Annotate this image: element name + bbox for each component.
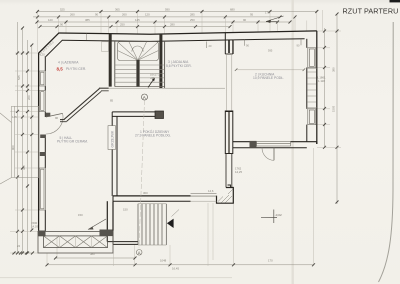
stair winder platform box xyxy=(118,42,159,61)
kitchen inner face lines xyxy=(233,40,235,54)
stair treads straight xyxy=(115,65,165,82)
leader arrow terrace xyxy=(88,219,106,230)
window right W2 xyxy=(308,109,316,125)
bathroom diagonal wall xyxy=(60,88,101,122)
kitchen bottom window band xyxy=(257,141,291,146)
leader arrow kitchen top xyxy=(266,16,284,22)
terrace bottom-left xyxy=(38,231,113,253)
kitchen label xyxy=(253,72,284,80)
step corner hatch xyxy=(218,190,233,203)
stair up arrow xyxy=(148,80,154,88)
svg-text:250: 250 xyxy=(120,23,125,27)
bottom dim long row xyxy=(47,264,314,266)
window left W3 xyxy=(39,168,45,210)
svg-text:385: 385 xyxy=(85,18,90,22)
front door arc xyxy=(46,113,63,134)
wide opening dining-kitchen xyxy=(226,54,232,111)
svg-text:3 | JADALNIA: 3 | JADALNIA xyxy=(168,60,189,64)
terrace corner blob left xyxy=(38,231,46,237)
section circle A top xyxy=(142,94,148,100)
tick marks on dimension chains xyxy=(13,10,339,266)
svg-text:16,45: 16,45 xyxy=(172,266,179,270)
svg-text:590: 590 xyxy=(165,7,170,11)
right dim col far xyxy=(336,14,338,204)
right paper edge curve xyxy=(379,22,394,282)
svg-text:525: 525 xyxy=(17,75,21,80)
svg-text:2 | KUCHNIA: 2 | KUCHNIA xyxy=(255,72,275,76)
stair handrail arc xyxy=(132,46,143,52)
svg-text:RZUT PARTERU: RZUT PARTERU xyxy=(343,7,399,16)
kitchen bottom wall xyxy=(233,142,317,148)
svg-text:14,6: 14,6 xyxy=(208,189,214,193)
door lower jamb xyxy=(40,135,45,139)
svg-text:90: 90 xyxy=(297,44,300,48)
svg-text:GRZEJNIK: GRZEJNIK xyxy=(111,130,115,148)
dining window mullion tick xyxy=(206,42,208,49)
svg-text:170: 170 xyxy=(268,259,273,263)
terrace X lattice xyxy=(44,236,108,248)
top dim row 3 xyxy=(37,21,290,23)
kitchen terrace door arc xyxy=(262,148,274,161)
svg-text:24: 24 xyxy=(17,244,21,248)
stairwell right wall xyxy=(159,34,164,88)
svg-text:20: 20 xyxy=(209,44,212,48)
pillar xyxy=(155,111,164,119)
svg-text:380: 380 xyxy=(332,67,336,72)
svg-text:95: 95 xyxy=(250,13,254,17)
svg-text:900: 900 xyxy=(11,145,15,150)
svg-text:90: 90 xyxy=(243,18,247,22)
bottom extensions xyxy=(46,253,48,266)
svg-text:1505: 1505 xyxy=(332,105,336,112)
terrace corner blob right xyxy=(100,230,113,237)
wall mark block xyxy=(40,152,46,156)
bottom faint paper line xyxy=(0,277,232,279)
svg-text:250: 250 xyxy=(190,18,195,22)
window left W2 xyxy=(39,91,45,112)
kitchen bottom door jamb left xyxy=(250,141,257,148)
svg-text:175: 175 xyxy=(265,10,270,14)
svg-text:360: 360 xyxy=(22,165,26,170)
left dim col 3 xyxy=(27,40,29,253)
bottom dim small left xyxy=(12,252,33,254)
arrow leader line xyxy=(172,210,180,217)
svg-text:680: 680 xyxy=(230,7,235,11)
door jamb nub xyxy=(45,113,50,117)
svg-text:120: 120 xyxy=(48,18,53,22)
top-right corner black mark xyxy=(390,0,400,2)
svg-text:120: 120 xyxy=(40,53,45,57)
top exterior wall inner xyxy=(62,39,305,42)
hall label xyxy=(57,136,88,144)
stair bottom edge xyxy=(115,86,165,88)
extension hairlines xyxy=(10,10,341,266)
svg-text:260: 260 xyxy=(122,13,127,17)
svg-text:525: 525 xyxy=(60,7,65,11)
top-left diagonal corner wall xyxy=(39,33,63,57)
bottom-right stepped corner xyxy=(217,185,234,203)
svg-text:145: 145 xyxy=(12,115,17,119)
bottom wall window band xyxy=(191,194,217,202)
wall right of living room (lower thin) xyxy=(226,154,232,188)
left dim col 2 xyxy=(22,28,24,253)
paper fold shading band xyxy=(292,0,294,284)
front door leaf xyxy=(46,113,63,117)
svg-text:85: 85 xyxy=(110,99,114,103)
svg-text:1.118: 1.118 xyxy=(318,79,325,83)
kitchen window jamb ticks xyxy=(244,40,246,46)
right exterior wall xyxy=(307,31,317,144)
radiator box hall xyxy=(108,126,116,150)
entrance steps block xyxy=(138,204,166,245)
right dim col near xyxy=(324,28,326,148)
wall right of living room (solid part) xyxy=(225,111,233,154)
svg-text:27,9 PANELE PODŁOG.: 27,9 PANELE PODŁOG. xyxy=(135,134,171,138)
top dim row 4 xyxy=(40,26,230,28)
right wall ladder hatch xyxy=(307,69,317,108)
svg-text:1 POKÓJ DZIENNY: 1 POKÓJ DZIENNY xyxy=(140,129,170,134)
svg-text:90: 90 xyxy=(55,116,59,120)
left dim col 4 xyxy=(31,45,33,230)
svg-text:595: 595 xyxy=(268,49,273,53)
corridor wall under bathroom xyxy=(99,88,109,91)
svg-text:14,03: 14,03 xyxy=(31,225,38,229)
svg-text:120: 120 xyxy=(145,13,150,17)
living room label xyxy=(135,129,171,138)
svg-text:380: 380 xyxy=(90,252,95,256)
level mark cross xyxy=(261,210,277,224)
svg-text:10,9 PANELE PODŁ.: 10,9 PANELE PODŁ. xyxy=(253,76,284,80)
left exterior wall xyxy=(39,53,46,236)
svg-text:150: 150 xyxy=(78,213,83,217)
svg-text:285: 285 xyxy=(190,13,195,17)
svg-text:8,5: 8,5 xyxy=(57,66,64,71)
svg-text:365: 365 xyxy=(115,7,120,11)
kitchen internal dim line xyxy=(236,69,304,71)
svg-text:90: 90 xyxy=(60,23,64,27)
svg-text:145: 145 xyxy=(135,18,140,22)
svg-text:4 | ŁAZIENKA: 4 | ŁAZIENKA xyxy=(58,60,79,64)
right extensions xyxy=(317,30,341,32)
top exterior wall outer xyxy=(59,31,317,34)
svg-text:260: 260 xyxy=(70,13,75,17)
svg-text:x28: x28 xyxy=(150,76,155,80)
svg-text:A: A xyxy=(143,95,146,100)
svg-text:1048: 1048 xyxy=(160,259,167,263)
svg-text:300: 300 xyxy=(143,191,148,195)
stair stringer xyxy=(136,60,139,87)
window left W1 xyxy=(39,71,45,86)
left terrace rectangle xyxy=(0,106,39,184)
bottom dim row 1 xyxy=(56,257,136,259)
svg-text:14,25: 14,25 xyxy=(235,170,242,174)
left dim col 1 xyxy=(17,22,19,253)
living room bottom wall xyxy=(113,196,191,201)
svg-text:260: 260 xyxy=(27,95,31,100)
dining label xyxy=(166,60,192,68)
svg-text:150: 150 xyxy=(123,208,128,212)
corridor line right of stairs xyxy=(109,87,225,89)
bathroom fixture box xyxy=(102,42,109,52)
svg-text:PŁYTKI GR CERAM.: PŁYTKI GR CERAM. xyxy=(57,140,88,144)
wall right of dining (upper stub) xyxy=(225,33,233,55)
stair winder fan xyxy=(118,42,159,60)
bathroom label xyxy=(57,60,87,71)
stairwell left wall xyxy=(109,34,115,87)
section circle A bottom xyxy=(136,250,142,256)
svg-text:280: 280 xyxy=(170,23,175,27)
living room top wall xyxy=(112,112,163,196)
svg-text:5,6 PŁYTKI CER.: 5,6 PŁYTKI CER. xyxy=(166,64,192,68)
svg-text:90: 90 xyxy=(246,44,249,48)
svg-text:A: A xyxy=(138,250,141,255)
svg-text:-0,02: -0,02 xyxy=(275,213,282,217)
kitchen terrace door leaf xyxy=(273,148,275,161)
window right W1 xyxy=(308,48,316,68)
svg-text:90: 90 xyxy=(95,13,99,17)
top dim row 2 xyxy=(33,16,280,18)
bathroom top wall tick xyxy=(86,34,88,41)
svg-text:PŁYTKI CER.: PŁYTKI CER. xyxy=(66,67,86,71)
hall lower-right wall to steps xyxy=(107,201,138,244)
section line A-A xyxy=(139,100,145,248)
left extensions xyxy=(15,52,39,54)
entrance arrow triangle xyxy=(167,219,174,228)
top dim row 1 xyxy=(38,11,318,13)
